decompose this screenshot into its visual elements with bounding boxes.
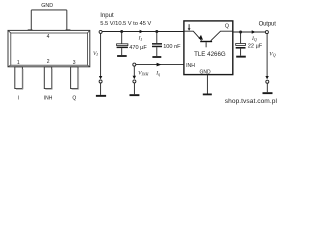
regulator U2 TLE 4266G box xyxy=(184,21,233,75)
svg-text:3: 3 xyxy=(73,60,76,66)
ground bar under C1 xyxy=(117,55,127,57)
ground bar under C2 xyxy=(152,56,161,58)
ground bar at V_INH xyxy=(130,94,140,96)
package pin 1 lead xyxy=(15,67,23,89)
current arrow I_Q on output rail xyxy=(252,30,256,34)
svg-text:5.5 V/10.5 V to 45 V: 5.5 V/10.5 V to 45 V xyxy=(100,21,151,27)
voltage arrow V_Q column xyxy=(265,34,268,92)
capacitor C1 470 uF electrolytic xyxy=(117,32,128,55)
capacitor C3 22 uF electrolytic xyxy=(236,33,246,56)
svg-text:Output: Output xyxy=(259,22,277,28)
svg-text:Iq: Iq xyxy=(155,70,160,76)
package pin 2 lead xyxy=(44,67,52,89)
svg-text:TLE 4266G: TLE 4266G xyxy=(194,51,226,58)
package U1 pin 4 number xyxy=(47,34,50,40)
svg-text:100 nF: 100 nF xyxy=(163,44,181,50)
svg-text:VI: VI xyxy=(93,51,98,57)
package U1 tab (pin 4) xyxy=(28,10,71,31)
ground bar at V_Q xyxy=(263,92,273,94)
label Output xyxy=(259,22,277,28)
svg-text:22 µF: 22 µF xyxy=(248,44,263,50)
current arrow I_q on INH wire xyxy=(157,63,162,67)
label Input xyxy=(100,13,114,19)
label V_Q xyxy=(269,51,275,57)
label I_Q xyxy=(251,36,257,42)
junction dot at C3 tap xyxy=(239,31,242,34)
svg-text:INH: INH xyxy=(186,63,195,69)
svg-text:GND: GND xyxy=(41,3,53,9)
package pin 1 name I xyxy=(18,96,19,102)
svg-text:VINH: VINH xyxy=(138,70,149,76)
wire GND from box xyxy=(206,75,208,94)
label 470 uF xyxy=(129,45,147,51)
watermark shop.tvsat.com.pl xyxy=(225,98,278,105)
svg-text:VQ: VQ xyxy=(269,51,275,57)
svg-text:4: 4 xyxy=(47,34,50,40)
package pin 3 number xyxy=(73,60,76,66)
INH terminal node xyxy=(133,63,136,66)
box pin label I (arrow) xyxy=(188,24,191,31)
input terminal node xyxy=(99,30,102,33)
svg-text:Q: Q xyxy=(225,23,229,29)
label TLE 4266G xyxy=(194,51,226,58)
svg-text:Input: Input xyxy=(100,13,114,19)
voltage arrow V_INH column xyxy=(133,66,136,94)
label I_q xyxy=(155,70,160,76)
ground bar at V_I xyxy=(96,95,106,97)
capacitor C2 100 nF xyxy=(152,32,162,56)
ground bar under C3 xyxy=(236,56,246,58)
package pin 3 name Q xyxy=(72,96,76,102)
svg-text:Q: Q xyxy=(72,96,76,102)
svg-text:shop.tvsat.com.pl: shop.tvsat.com.pl xyxy=(225,98,278,105)
junction dot at C2 tap xyxy=(155,30,158,33)
wire input rail xyxy=(102,31,183,33)
package pin 1 number xyxy=(17,60,20,66)
label input voltage range 5.5 V/10.5 V to 45 V xyxy=(100,21,151,27)
label 100 nF xyxy=(163,44,181,50)
svg-text:I: I xyxy=(18,96,19,102)
wire INH xyxy=(136,64,184,66)
svg-text:1: 1 xyxy=(17,60,20,66)
junction dot at C1 tap xyxy=(120,30,123,33)
svg-text:II: II xyxy=(138,36,143,42)
package U1 body outline xyxy=(8,30,90,66)
output terminal node xyxy=(265,31,268,34)
package pin 2 number xyxy=(47,59,50,65)
label 22 uF xyxy=(248,44,263,50)
wire output rail xyxy=(233,31,265,33)
ground bar at box GND xyxy=(203,94,212,96)
label V_INH xyxy=(138,70,149,76)
package pin 3 lead xyxy=(71,67,79,89)
package pin 2 name INH xyxy=(44,96,53,102)
voltage arrow V_I column xyxy=(99,34,102,95)
package U1 SOT-223 GND tab label xyxy=(41,3,53,9)
svg-text:2: 2 xyxy=(47,59,50,65)
svg-text:IQ: IQ xyxy=(251,36,257,42)
label V_I xyxy=(93,51,98,57)
transistor Q1 PNP pass element xyxy=(184,31,232,47)
box pin label Q xyxy=(225,23,229,29)
label I_I xyxy=(138,36,143,42)
box pin label GND xyxy=(199,69,211,75)
svg-text:GND: GND xyxy=(199,69,211,75)
svg-text:470 µF: 470 µF xyxy=(129,45,147,51)
box pin label INH xyxy=(186,63,195,69)
svg-text:INH: INH xyxy=(44,96,53,102)
current arrow I_I on input rail xyxy=(140,30,143,34)
